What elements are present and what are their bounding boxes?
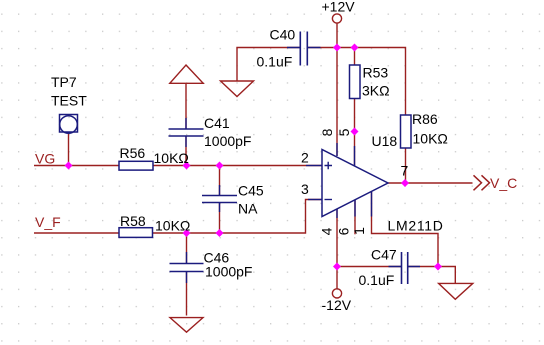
svg-text:V_F: V_F	[35, 214, 61, 230]
svg-text:10KΩ: 10KΩ	[413, 131, 448, 147]
svg-text:5: 5	[336, 128, 352, 136]
svg-text:R58: R58	[120, 213, 146, 229]
svg-text:TEST: TEST	[51, 93, 87, 109]
svg-text:0.1uF: 0.1uF	[257, 54, 293, 70]
svg-text:8: 8	[319, 128, 335, 136]
svg-text:1: 1	[351, 227, 367, 235]
svg-text:C41: C41	[204, 115, 230, 131]
svg-text:3: 3	[301, 181, 309, 197]
svg-text:U18: U18	[372, 133, 398, 149]
svg-text:LM211D: LM211D	[388, 218, 444, 234]
svg-text:6: 6	[336, 227, 352, 235]
svg-text:R56: R56	[120, 145, 146, 161]
svg-text:+12V: +12V	[322, 0, 356, 15]
svg-text:1000pF: 1000pF	[204, 133, 251, 149]
svg-text:TP7: TP7	[51, 74, 77, 90]
svg-text:3KΩ: 3KΩ	[362, 83, 390, 99]
svg-text:V_C: V_C	[490, 175, 517, 191]
svg-text:R86: R86	[412, 111, 438, 127]
svg-text:-12V: -12V	[322, 297, 352, 313]
svg-text:NA: NA	[238, 201, 258, 217]
svg-text:1000pF: 1000pF	[205, 264, 252, 280]
svg-text:7: 7	[401, 163, 409, 179]
svg-text:R53: R53	[363, 65, 389, 81]
svg-text:10KΩ: 10KΩ	[154, 150, 189, 166]
svg-text:C45: C45	[238, 183, 264, 199]
svg-text:2: 2	[301, 150, 309, 166]
svg-text:C47: C47	[371, 247, 397, 263]
svg-text:VG: VG	[35, 151, 55, 167]
svg-text:C40: C40	[270, 27, 296, 43]
svg-text:4: 4	[319, 227, 335, 235]
svg-text:0.1uF: 0.1uF	[359, 272, 395, 288]
svg-text:10KΩ: 10KΩ	[155, 218, 190, 234]
